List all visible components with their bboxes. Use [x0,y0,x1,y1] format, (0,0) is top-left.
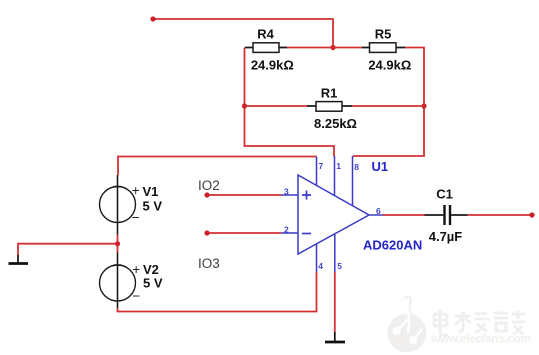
wire: R4 right to R5 left [287,47,362,49]
resistor R1 [307,86,357,132]
wire: R5 right down right branch to pin 8 [353,48,424,157]
svg-text:C1: C1 [436,187,453,202]
pin 7 line [316,157,318,186]
svg-text:5: 5 [337,261,342,271]
svg-text:U1: U1 [372,159,389,174]
pin 3 stub [281,194,298,196]
pin 1 line [334,156,336,196]
wire: C1 right to output node [468,214,533,216]
svg-text:−: − [132,210,140,225]
ground mid (pin 5) [325,332,345,342]
pin 8 line [352,156,354,206]
watermark chinese text 电子发烧友 [434,310,525,335]
wire: R1 left red lead [245,105,308,107]
svg-text:V1: V1 [143,184,159,199]
pin numbers [284,161,381,271]
resistor R5 [362,27,411,73]
svg-text:R1: R1 [321,86,338,101]
wire: V1 top to pin 7 [118,157,317,176]
wire: IO2 to pin 3 [207,194,281,196]
capacitor C1 [425,187,468,244]
op-amp U1 triangle [281,156,383,272]
minus sign [302,233,311,235]
svg-text:7: 7 [319,161,324,171]
watermark logo elecfans [388,297,427,353]
svg-text:−: − [132,289,140,304]
pin 2 stub [281,232,298,234]
wire: IO3 to pin 2 [207,232,281,234]
svg-text:4.7µF: 4.7µF [429,229,463,244]
svg-text:5 V: 5 V [143,276,163,291]
svg-text:5 V: 5 V [143,198,163,213]
wire: V1 bottom to V2 top [117,235,119,253]
svg-text:IO2: IO2 [198,178,220,193]
node dot R4/R5 junction [330,45,335,50]
svg-text:1: 1 [336,161,341,171]
svg-text:R5: R5 [375,27,392,42]
svg-text:+: + [132,183,140,198]
svg-text:24.9kΩ: 24.9kΩ [251,57,294,72]
pin 5 line [334,234,336,272]
node dot IO2 [204,192,209,197]
wire: R1 right red lead [352,105,424,107]
resistor R4 [245,27,294,73]
wire: V2 bottom to pin 4 [118,272,317,312]
svg-text:8.25kΩ: 8.25kΩ [314,116,357,131]
svg-text:IO3: IO3 [198,256,220,271]
voltage source V2 [100,253,163,309]
svg-text:2: 2 [284,225,289,235]
wire: op-amp output to C1 [383,214,425,216]
wire: mid sources to ground left [18,244,118,255]
node dot IO3 [204,230,209,235]
plus sign [302,191,311,200]
svg-text:3: 3 [284,186,289,196]
wire: pin 5 to ground mid [334,272,336,332]
node dot top-left [150,16,155,21]
svg-text:6: 6 [376,206,381,216]
node dot mid sources [115,241,120,246]
output stub pin 6 [369,214,383,216]
ground left [9,255,29,264]
svg-text:24.9kΩ: 24.9kΩ [368,57,411,72]
node dot right R1 junction [421,103,426,108]
pin 4 line [316,244,318,272]
node dot left R1 junction [242,103,247,108]
wire: R4 left down left branch to pin 1 [245,48,335,157]
svg-text:www.elecfans.com: www.elecfans.com [430,332,531,346]
svg-text:4: 4 [318,261,323,271]
node dot output right [529,212,534,217]
svg-text:AD620AN: AD620AN [363,237,422,252]
svg-text:8: 8 [354,162,359,172]
wire: top net from node to R4/R5 junction [153,19,333,48]
svg-text:+: + [132,262,140,277]
svg-text:R4: R4 [257,27,274,42]
voltage source V1 [100,175,163,235]
